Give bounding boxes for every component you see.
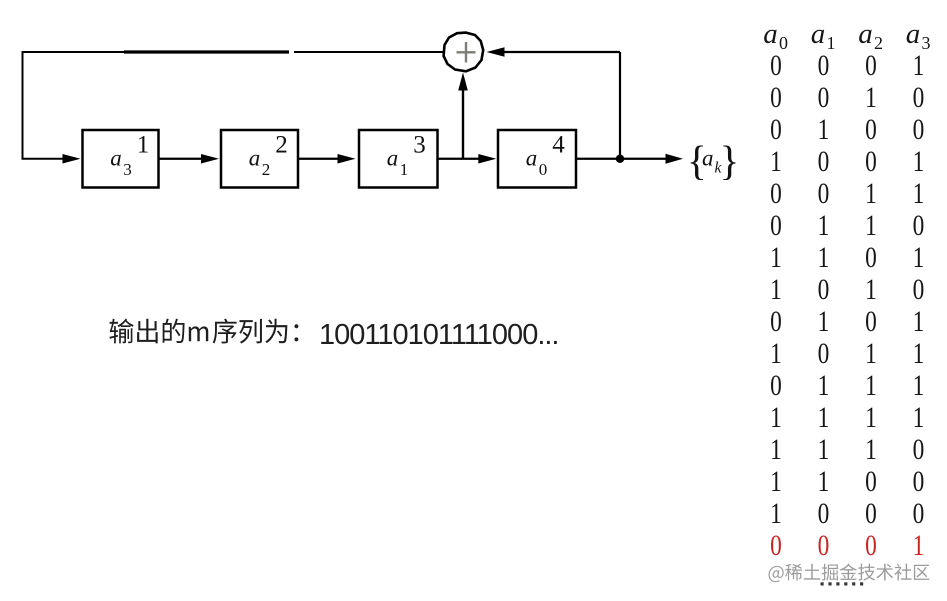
svg-text:1: 1 [913,176,925,209]
svg-text:0: 0 [865,112,877,145]
svg-text:0: 0 [818,496,830,529]
svg-text:0: 0 [865,496,877,529]
svg-text:a: a [702,146,714,171]
svg-text:0: 0 [770,80,782,113]
state row 15 [770,496,924,529]
svg-text:1: 1 [770,336,782,369]
svg-text:1: 1 [865,368,877,401]
state row 6 [770,208,924,241]
arrowhead into register a1 [338,154,356,164]
state table rows [770,48,924,561]
svg-text:1: 1 [770,464,782,497]
svg-text:0: 0 [770,208,782,241]
state row 12 [770,400,924,433]
svg-text:2: 2 [262,160,271,179]
svg-text:1: 1 [913,368,925,401]
svg-text:0: 0 [865,304,877,337]
state row 2 [770,80,924,113]
svg-text:1: 1 [913,144,925,177]
svg-text:0: 0 [818,272,830,305]
svg-text:0: 0 [913,112,925,145]
svg-text:1: 1 [865,80,877,113]
svg-text:0: 0 [770,48,782,81]
arrowhead up into adder [458,73,468,91]
svg-text:0: 0 [818,528,830,561]
svg-text:0: 0 [818,48,830,81]
state table header a0 a1 a2 a3 [763,18,930,53]
svg-text:1: 1 [865,432,877,465]
svg-text:0: 0 [770,528,782,561]
register a3 (stage 1) [83,130,159,188]
svg-text:a: a [110,146,122,171]
svg-text:100110101111000...: 100110101111000... [319,319,559,351]
svg-text:1: 1 [913,336,925,369]
svg-text:0: 0 [913,464,925,497]
svg-text:0: 0 [865,144,877,177]
svg-text:2: 2 [275,132,288,159]
svg-text:}: } [720,137,740,183]
svg-text:1: 1 [818,112,830,145]
svg-text:1: 1 [913,528,925,561]
arrowhead to output sequence [666,154,684,164]
adder plus sign [457,42,476,63]
svg-text:a: a [858,18,873,50]
ellipsis dots under watermark [821,582,864,585]
svg-text:a: a [387,146,399,171]
svg-text:1: 1 [818,464,830,497]
svg-text:1: 1 [913,304,925,337]
svg-text:1: 1 [770,272,782,305]
wire a0 to output node and onward [576,158,666,160]
svg-text:1: 1 [770,400,782,433]
svg-text:1: 1 [865,336,877,369]
svg-text:0: 0 [818,336,830,369]
svg-text:3: 3 [413,132,426,159]
watermark juejin community [769,564,930,583]
svg-text:0: 0 [539,160,548,179]
svg-text:a: a [526,146,538,171]
svg-text:0: 0 [865,528,877,561]
output sequence label {a_k} [687,137,739,183]
svg-text:1: 1 [137,132,150,159]
svg-text:1: 1 [770,496,782,529]
svg-text:0: 0 [913,80,925,113]
svg-text:0: 0 [913,432,925,465]
svg-text:1: 1 [818,304,830,337]
svg-text:1: 1 [818,400,830,433]
svg-text:1: 1 [818,432,830,465]
state row 8 [770,272,924,305]
wire tap riser from a1-a0 junction up to adder [462,88,464,159]
register a1 (stage 3) [359,130,438,188]
arrowhead into register a2 [201,154,219,164]
wire a3 to a2 [159,158,204,160]
svg-text:0: 0 [865,48,877,81]
state row 11 [770,368,924,401]
arrowhead into register a3 [63,154,81,164]
svg-text:3: 3 [123,160,132,179]
svg-text:1: 1 [865,208,877,241]
state row 10 [770,336,924,369]
output node junction dot [616,155,624,163]
state row 14 [770,464,924,497]
arrowhead left into adder [487,47,505,57]
wire a2 to a1 [298,158,341,160]
svg-text:1: 1 [818,208,830,241]
state row 5 [770,176,924,209]
arrowhead into register a0 [478,154,496,164]
svg-text:0: 0 [913,496,925,529]
state row 16 (red, repeats initial state) [770,528,924,561]
caption text: output m-sequence is [109,319,298,344]
svg-text:0: 0 [818,80,830,113]
svg-text:1: 1 [818,240,830,273]
svg-text:0: 0 [770,304,782,337]
svg-text:0: 0 [818,176,830,209]
svg-text:a: a [906,18,921,50]
wire feedback top rail thick mid segment [124,50,289,53]
svg-text:1: 1 [818,368,830,401]
svg-text:1: 1 [913,400,925,433]
state row 3 [770,112,924,145]
svg-text:0: 0 [818,144,830,177]
svg-text:0: 0 [770,176,782,209]
svg-text:1: 1 [865,400,877,433]
wire feedback top-left segment and left rail down [23,52,125,159]
register a2 (stage 2) [221,130,298,188]
state row 7 [770,240,924,273]
svg-text:a: a [811,18,826,50]
adder (modulo-2 summer) [444,33,484,72]
register a0 (stage 4) [498,130,576,188]
svg-text:a: a [249,146,261,171]
svg-text:0: 0 [865,464,877,497]
svg-text:1: 1 [770,144,782,177]
svg-text:1: 1 [913,240,925,273]
svg-text:1: 1 [865,176,877,209]
svg-text:a: a [763,18,778,50]
state row 1 [770,48,924,81]
svg-text:1: 1 [770,432,782,465]
svg-text:4: 4 [552,132,565,159]
wire feedback riser from output node up [619,52,621,159]
wire a1 to a0 (with feedback tap) [438,158,481,160]
svg-text:0: 0 [770,112,782,145]
wire feedback top into adder right [504,51,620,53]
svg-text:0: 0 [913,272,925,305]
svg-text:0: 0 [913,208,925,241]
svg-text:1: 1 [400,160,409,179]
svg-text:1: 1 [865,272,877,305]
svg-text:1: 1 [913,48,925,81]
wire feedback top rail (adder output to left) [294,51,444,53]
state row 13 [770,432,924,465]
state row 9 [770,304,924,337]
svg-text:1: 1 [770,240,782,273]
svg-text:0: 0 [865,240,877,273]
state row 4 [770,144,924,177]
svg-text:0: 0 [770,368,782,401]
